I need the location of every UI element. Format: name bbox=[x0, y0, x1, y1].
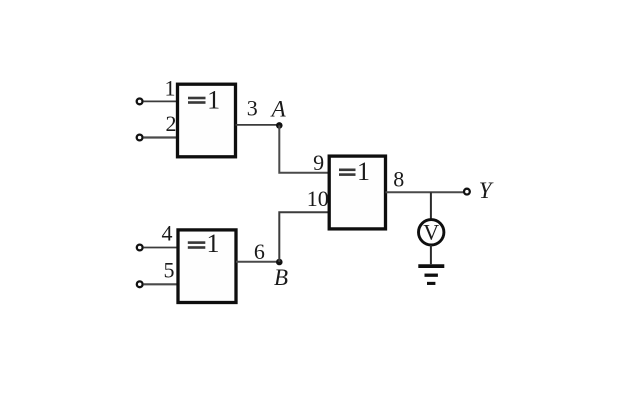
svg-text:8: 8 bbox=[393, 167, 404, 192]
XOR gate U1 bbox=[178, 84, 236, 157]
wire input4 to U2 bbox=[143, 247, 178, 249]
wire node B up and right to U3 pin10 bbox=[279, 212, 329, 262]
junction node B bbox=[276, 259, 283, 266]
svg-text:2: 2 bbox=[166, 111, 177, 136]
terminal input 4 bbox=[137, 245, 143, 251]
svg-text:1: 1 bbox=[165, 76, 176, 101]
svg-text:9: 9 bbox=[313, 150, 324, 175]
wire U1 output pin3 to node A bbox=[236, 124, 280, 126]
gate U1 label =1 bbox=[188, 85, 220, 114]
svg-text:3: 3 bbox=[247, 96, 258, 121]
terminal input 2 bbox=[137, 135, 143, 141]
wire U2 output pin6 to node B bbox=[236, 261, 279, 263]
gate U3 label =1 bbox=[339, 157, 370, 186]
svg-text:6: 6 bbox=[254, 239, 265, 264]
svg-text:4: 4 bbox=[162, 221, 173, 246]
wire input2 to U1 bbox=[143, 136, 177, 138]
wire input1 to U1 bbox=[143, 100, 177, 102]
voltmeter V1 bbox=[419, 220, 444, 245]
ground bbox=[418, 266, 444, 283]
svg-text:1: 1 bbox=[357, 157, 370, 186]
terminal output Y bbox=[464, 189, 470, 195]
XOR gate U3 bbox=[329, 156, 385, 229]
svg-text:A: A bbox=[270, 96, 287, 121]
XOR gate U2 bbox=[178, 230, 236, 303]
gate U2 label =1 bbox=[188, 229, 220, 258]
wire voltmeter to ground bbox=[430, 245, 432, 264]
terminal input 1 bbox=[137, 99, 143, 105]
junction node A bbox=[276, 122, 283, 129]
svg-text:5: 5 bbox=[164, 258, 175, 283]
wire U3 output pin8 to terminal Y bbox=[386, 191, 464, 193]
svg-text:10: 10 bbox=[307, 186, 329, 211]
wire input5 to U2 bbox=[143, 283, 178, 285]
svg-text:Y: Y bbox=[479, 178, 494, 203]
svg-text:V: V bbox=[423, 220, 439, 245]
svg-text:1: 1 bbox=[207, 85, 220, 114]
terminal input 5 bbox=[137, 281, 143, 287]
svg-text:B: B bbox=[274, 265, 288, 290]
svg-text:1: 1 bbox=[207, 229, 220, 258]
wire output branch down to voltmeter bbox=[430, 192, 432, 219]
wire node A down and right to U3 pin9 bbox=[279, 125, 329, 172]
